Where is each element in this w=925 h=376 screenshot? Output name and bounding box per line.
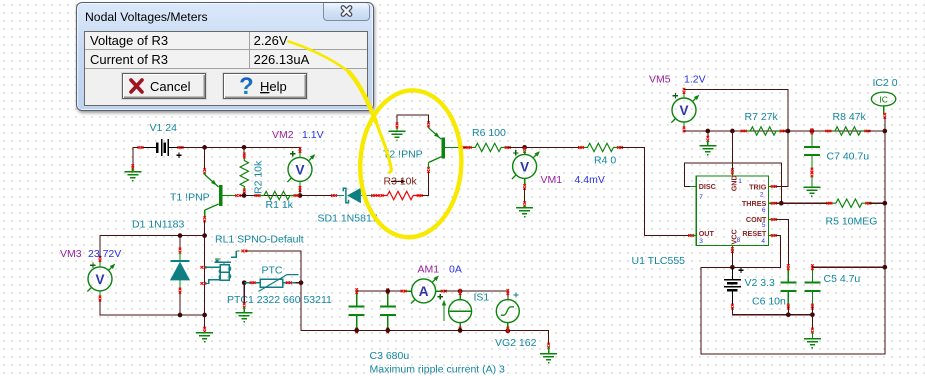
svg-text:V: V — [520, 159, 529, 174]
svg-text:R5 10MEG: R5 10MEG — [826, 216, 878, 228]
svg-text:8: 8 — [737, 237, 741, 244]
svg-text:3: 3 — [699, 238, 703, 245]
svg-text:VM3: VM3 — [60, 248, 82, 260]
svg-text:OUT: OUT — [699, 229, 715, 238]
svg-text:R7 27k: R7 27k — [745, 111, 779, 123]
svg-text:C3 680u: C3 680u — [370, 350, 410, 362]
svg-text:V: V — [295, 162, 304, 177]
svg-text:1.2V: 1.2V — [684, 74, 706, 86]
svg-text:5: 5 — [762, 222, 766, 229]
svg-text:Help: Help — [260, 79, 287, 94]
svg-text:V2 3.3: V2 3.3 — [745, 277, 776, 289]
svg-text:1.1V: 1.1V — [302, 129, 324, 141]
svg-text:C6 10n: C6 10n — [752, 296, 786, 308]
svg-text:R1 1k: R1 1k — [266, 199, 294, 211]
svg-text:A: A — [419, 284, 429, 299]
svg-text:VM2: VM2 — [272, 129, 294, 141]
svg-text:TRIG: TRIG — [749, 182, 767, 191]
svg-text:IC: IC — [879, 94, 888, 104]
svg-text:4: 4 — [761, 238, 765, 245]
svg-text:1: 1 — [738, 178, 742, 185]
svg-text:D1 1N1183: D1 1N1183 — [132, 219, 185, 231]
svg-text:DISC: DISC — [699, 182, 716, 191]
svg-text:PTC: PTC — [262, 265, 283, 277]
svg-text:V: V — [95, 272, 104, 287]
svg-text:R6 100: R6 100 — [472, 127, 506, 139]
svg-text:IC2 0: IC2 0 — [873, 77, 898, 89]
svg-text:U1 TLC555: U1 TLC555 — [632, 255, 686, 267]
svg-text:Cancel: Cancel — [150, 79, 191, 94]
svg-text:SD1 1N5817: SD1 1N5817 — [318, 213, 378, 225]
svg-text:?: ? — [239, 74, 254, 98]
svg-text:VM1: VM1 — [541, 174, 563, 186]
svg-text:R8 47k: R8 47k — [833, 111, 867, 123]
svg-text:C7 40.7u: C7 40.7u — [827, 151, 870, 163]
svg-text:VM5: VM5 — [649, 74, 671, 86]
svg-text:AM1: AM1 — [418, 264, 440, 276]
svg-text:IS1: IS1 — [474, 292, 490, 304]
svg-text:PTC1 2322 660 53211: PTC1 2322 660 53211 — [227, 294, 332, 306]
svg-text:C5 4.7u: C5 4.7u — [824, 273, 861, 285]
svg-text:0A: 0A — [449, 264, 462, 276]
svg-text:Maximum ripple current (A) 3: Maximum ripple current (A) 3 — [370, 364, 506, 376]
svg-text:V: V — [679, 103, 688, 118]
svg-text:RESET: RESET — [742, 229, 767, 238]
svg-text:VG2 162: VG2 162 — [495, 337, 537, 349]
svg-text:23.72V: 23.72V — [88, 248, 121, 260]
svg-text:T1 !PNP: T1 !PNP — [170, 192, 210, 204]
svg-text:2: 2 — [760, 192, 764, 199]
svg-text:R2 10k: R2 10k — [253, 160, 265, 194]
svg-text:7: 7 — [699, 194, 703, 201]
svg-text:T2 !PNP: T2 !PNP — [383, 149, 423, 161]
svg-text:R4 0: R4 0 — [594, 155, 616, 167]
svg-text:4.4mV: 4.4mV — [575, 174, 605, 186]
svg-text:V1 24: V1 24 — [150, 122, 178, 134]
svg-text:RL1 SPNO-Default: RL1 SPNO-Default — [215, 234, 304, 246]
svg-text:6: 6 — [762, 207, 766, 214]
